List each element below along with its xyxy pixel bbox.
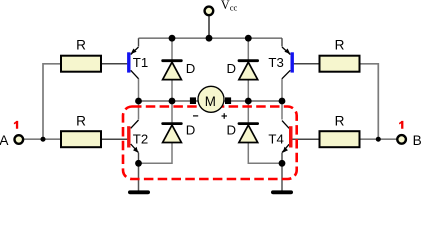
svg-text:D: D <box>226 123 236 138</box>
wire: T1 emitter vertical from rail <box>138 38 140 46</box>
wire: D2 cathode lead <box>247 38 249 59</box>
wire: T2 base stub <box>101 138 127 140</box>
diode D2 (upper-right) <box>238 59 259 79</box>
ground left <box>128 190 150 194</box>
transistor T2 (NPN, red bar) <box>127 120 138 153</box>
resistor R (top-right) <box>320 56 360 72</box>
wire: T1 base stub <box>101 63 127 65</box>
wire: D3 anode L to T2 emitter node <box>139 143 173 164</box>
wire: left branch vertical <box>43 64 61 139</box>
wire: Vcc drop <box>208 16 210 39</box>
motor minus label <box>193 115 198 117</box>
red 1 label right <box>399 121 403 129</box>
wire: T2 emitter vertical <box>138 153 140 164</box>
wire: T1 collector vertical <box>138 79 140 102</box>
junction node left branch <box>41 137 46 142</box>
diode D4 (lower-right) <box>238 122 259 142</box>
resistor R (top-left) <box>61 56 101 72</box>
wire: motor row <box>139 100 283 102</box>
terminal B <box>397 135 406 144</box>
wire: top rail <box>139 37 283 39</box>
resistor R (bottom-left) <box>61 131 101 147</box>
wire: D3 cathode lead <box>171 101 173 122</box>
ground right <box>271 190 293 194</box>
wire: bottom-right resistor to B <box>360 138 398 140</box>
wire: T4 collector vertical <box>281 101 283 120</box>
svg-text:D: D <box>186 61 196 76</box>
wire: T3 collector vertical <box>281 79 283 102</box>
svg-text:R: R <box>335 113 345 128</box>
transistor T4 (NPN, red bar) <box>282 121 293 153</box>
motor M <box>190 86 231 112</box>
wire: A terminal to left junction <box>23 138 43 140</box>
svg-text:D: D <box>186 123 196 138</box>
junction node on rail at D2 <box>245 35 252 42</box>
terminal A <box>14 135 23 144</box>
wire: T3 base stub <box>294 63 320 65</box>
wire: T3 emitter vertical from rail <box>281 38 283 46</box>
svg-text:T1: T1 <box>133 55 148 70</box>
junction node motor row left <box>135 98 142 105</box>
svg-text:T2: T2 <box>133 132 148 147</box>
svg-text:T4: T4 <box>268 132 283 147</box>
wire: D1 anode lead <box>171 80 173 102</box>
svg-text:B: B <box>413 133 421 148</box>
junction node on rail at Vcc <box>206 35 213 42</box>
svg-text:T3: T3 <box>268 55 283 70</box>
junction node on rail at D1 <box>169 35 176 42</box>
wire: D4 cathode lead <box>247 101 249 122</box>
junction node motor row at D2 <box>245 98 252 105</box>
wire: left junction to bottom-left resistor <box>43 138 61 140</box>
resistor R (bottom-right) <box>320 131 360 147</box>
junction node motor row right <box>279 98 286 105</box>
transistor T3 (PNP, blue bar) <box>282 47 294 79</box>
wire: D2 anode lead <box>247 80 249 102</box>
red 1 label left <box>14 121 18 129</box>
wire: T2 collector vertical <box>138 101 140 120</box>
wire: right ground stub <box>281 163 283 191</box>
diode D1 (upper-left) <box>161 59 182 79</box>
wire: right branch vertical <box>360 64 379 139</box>
transistor T1 (PNP, blue bar) <box>127 47 138 79</box>
dashed feedback box (red) <box>123 107 297 180</box>
junction node right branch <box>376 137 381 142</box>
svg-text:Vcc: Vcc <box>221 0 238 13</box>
svg-text:R: R <box>76 113 86 128</box>
wire: T4 base stub <box>293 138 320 140</box>
junction node T2 emitter <box>135 160 142 167</box>
diode D3 (lower-left) <box>161 122 182 142</box>
wire: D4 anode L to T4 emitter node <box>248 143 282 164</box>
svg-text:R: R <box>76 37 86 52</box>
svg-text:M: M <box>205 94 216 109</box>
svg-text:D: D <box>226 61 236 76</box>
junction node motor row at D1 <box>169 98 176 105</box>
wire: T4 emitter vertical <box>281 153 283 164</box>
wire: D1 cathode lead <box>171 38 173 59</box>
Vcc terminal <box>205 7 214 16</box>
motor plus label <box>222 113 228 119</box>
svg-text:R: R <box>335 37 345 52</box>
wire: left ground stub <box>138 163 140 191</box>
junction node T4 emitter <box>279 160 286 167</box>
svg-text:A: A <box>0 133 9 148</box>
